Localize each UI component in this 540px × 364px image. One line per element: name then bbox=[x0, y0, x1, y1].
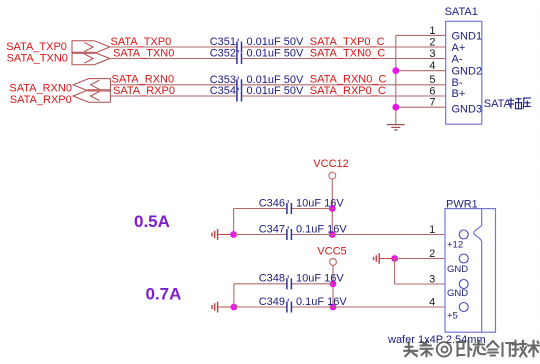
label SATA socket bbox=[484, 98, 531, 110]
svg-text:SATA_RXP0_C: SATA_RXP0_C bbox=[310, 85, 386, 97]
ground symbol PWR pins 2-3 bbox=[374, 253, 395, 263]
wire C346 row bbox=[234, 208, 333, 210]
svg-text:wafer 1x4P 2.54mm: wafer 1x4P 2.54mm bbox=[387, 334, 486, 346]
svg-text:SATA_TXN0: SATA_TXN0 bbox=[113, 47, 174, 59]
ground symbol C347 bbox=[212, 229, 234, 240]
svg-text:SATA_RXP0: SATA_RXP0 bbox=[10, 94, 72, 106]
wire pin2 row bbox=[395, 258, 445, 260]
svg-text:0.5A: 0.5A bbox=[134, 212, 170, 231]
svg-text:3: 3 bbox=[429, 273, 435, 285]
svg-text:B+: B+ bbox=[452, 88, 466, 100]
capacitor C354 bbox=[210, 85, 304, 101]
wire net SATA_RXP0 bbox=[110, 95, 236, 97]
wire C347 row to pin1 bbox=[234, 234, 445, 236]
wire net SATA_TXP0_C bbox=[242, 46, 446, 48]
svg-text:SATA_RXN0: SATA_RXN0 bbox=[9, 82, 72, 94]
capacitor C348 bbox=[259, 273, 345, 290]
junction pin7 GND bbox=[392, 104, 399, 111]
svg-text:0.7A: 0.7A bbox=[146, 284, 182, 303]
junction VCC12 pin1 bbox=[329, 231, 336, 238]
svg-text:0.01uF 50V: 0.01uF 50V bbox=[247, 47, 305, 59]
junction VCC5 pin4 bbox=[330, 304, 337, 311]
svg-text:C346: C346 bbox=[259, 197, 285, 209]
svg-text:SATA_TXN0_C: SATA_TXN0_C bbox=[310, 47, 385, 59]
svg-text:0.1uF 16V: 0.1uF 16V bbox=[296, 223, 347, 235]
wire net SATA_RXN0 bbox=[110, 84, 236, 86]
svg-text:C352: C352 bbox=[210, 47, 236, 59]
svg-text:2: 2 bbox=[429, 36, 435, 48]
svg-text:SATA: SATA bbox=[484, 98, 512, 110]
junction VCC12 C346 bbox=[329, 205, 336, 212]
svg-text:GND1: GND1 bbox=[452, 30, 483, 42]
wire GND pin7 bbox=[396, 106, 446, 108]
svg-text:1: 1 bbox=[429, 25, 435, 37]
watermark wolong CJK bbox=[458, 341, 499, 357]
svg-text:VCC12: VCC12 bbox=[313, 158, 348, 170]
svg-text:0.01uF 50V: 0.01uF 50V bbox=[247, 85, 305, 97]
svg-text:GND: GND bbox=[447, 264, 468, 275]
svg-text:C349: C349 bbox=[259, 296, 285, 308]
junction VCC5 C348 bbox=[330, 280, 337, 287]
svg-text:C354: C354 bbox=[210, 85, 236, 97]
pwr pin circle 1 bbox=[459, 230, 468, 239]
wire VCC5 vertical bbox=[332, 265, 334, 307]
svg-text:VCC5: VCC5 bbox=[317, 246, 346, 258]
power symbol VCC5 bbox=[330, 259, 337, 266]
svg-text:SATA_RXP0: SATA_RXP0 bbox=[113, 85, 175, 97]
wire C349 row to pin4 bbox=[234, 306, 445, 308]
ground symbol SATA1 bbox=[387, 125, 405, 130]
wire VCC12 vertical bbox=[331, 179, 333, 235]
svg-text:+12: +12 bbox=[447, 240, 463, 251]
svg-text:0.1uF 16V: 0.1uF 16V bbox=[296, 296, 347, 308]
junction pin4 GND bbox=[392, 67, 399, 74]
junction ground pin2 bbox=[391, 255, 398, 262]
svg-text:2: 2 bbox=[429, 248, 435, 260]
svg-text:SATA_TXP0_C: SATA_TXP0_C bbox=[310, 36, 385, 48]
svg-text:GND2: GND2 bbox=[452, 66, 483, 78]
junction ground C347 bbox=[230, 231, 237, 238]
svg-text:SATA_RXN0_C: SATA_RXN0_C bbox=[310, 74, 387, 86]
svg-text:C353: C353 bbox=[210, 74, 236, 86]
wire GND pin4 bbox=[396, 70, 446, 72]
svg-text:5: 5 bbox=[429, 74, 435, 86]
watermark toutiao CJK bbox=[404, 341, 433, 357]
connector SATA1 body bbox=[446, 21, 482, 124]
wire pin3 row bbox=[395, 283, 445, 285]
port SATA_RXP0 bbox=[73, 90, 110, 102]
svg-text:10uF 16V: 10uF 16V bbox=[296, 273, 344, 285]
wire net SATA_RXN0_C bbox=[242, 84, 446, 86]
svg-text:4: 4 bbox=[429, 60, 435, 72]
wire net SATA_RXP0_C bbox=[242, 95, 446, 97]
svg-text:SATA_TXN0: SATA_TXN0 bbox=[7, 53, 68, 65]
capacitor C346 bbox=[259, 197, 345, 214]
svg-text:GND3: GND3 bbox=[452, 104, 483, 116]
svg-text:SATA_RXN0: SATA_RXN0 bbox=[112, 74, 175, 86]
svg-text:GND: GND bbox=[447, 288, 468, 299]
capacitor C347 bbox=[259, 223, 348, 240]
port SATA_TXP0 bbox=[72, 41, 110, 54]
capacitor C352 bbox=[210, 47, 304, 64]
ground symbol C349 bbox=[212, 302, 234, 313]
watermark at sign bbox=[437, 342, 451, 356]
svg-text:A-: A- bbox=[452, 54, 463, 66]
svg-text:SATA_TXP0: SATA_TXP0 bbox=[6, 41, 67, 53]
power symbol VCC12 bbox=[329, 172, 336, 179]
svg-text:7: 7 bbox=[429, 97, 435, 109]
wire C348 row bbox=[234, 283, 333, 285]
pwr pin circle 4 bbox=[459, 303, 468, 312]
capacitor C349 bbox=[259, 296, 348, 313]
svg-text:+5: +5 bbox=[447, 311, 458, 322]
port SATA_TXN0 bbox=[72, 52, 110, 64]
svg-text:10uF 16V: 10uF 16V bbox=[296, 197, 344, 209]
pwr pin circle 2 bbox=[459, 254, 468, 263]
svg-text:C351: C351 bbox=[210, 36, 236, 48]
svg-text:SATA_TXP0: SATA_TXP0 bbox=[111, 36, 172, 48]
svg-text:3: 3 bbox=[429, 48, 435, 60]
pwr pin circle 3 bbox=[459, 280, 468, 289]
wire net SATA_TXP0 bbox=[110, 46, 237, 48]
connector PWR1 body bbox=[445, 209, 496, 333]
wire net SATA_TXN0_C bbox=[242, 58, 446, 60]
capacitor pin ticks bbox=[238, 39, 288, 302]
wire C346 branch vertical bbox=[233, 209, 235, 235]
svg-text:1: 1 bbox=[429, 224, 435, 236]
wire GND pin1 bbox=[396, 34, 446, 36]
capacitor C351 bbox=[210, 36, 304, 53]
watermark IT bbox=[503, 343, 514, 356]
svg-text:SATA1: SATA1 bbox=[445, 6, 478, 18]
wire net SATA_TXN0 bbox=[110, 58, 237, 60]
junction ground C349 bbox=[231, 304, 238, 311]
port SATA_RXN0 bbox=[73, 79, 110, 91]
svg-text:C348: C348 bbox=[259, 273, 285, 285]
svg-text:4: 4 bbox=[429, 296, 435, 308]
watermark jishu CJK bbox=[513, 341, 540, 357]
svg-text:0.01uF 50V: 0.01uF 50V bbox=[247, 74, 305, 86]
wire gnd vertical pin2-pin3 bbox=[394, 259, 396, 285]
capacitor C353 bbox=[210, 74, 304, 91]
svg-text:A+: A+ bbox=[452, 42, 466, 54]
wire GND vertical bbox=[395, 35, 397, 124]
svg-text:0.01uF 50V: 0.01uF 50V bbox=[247, 36, 305, 48]
svg-text:C347: C347 bbox=[259, 223, 285, 235]
wire C348 branch vertical bbox=[233, 284, 235, 307]
